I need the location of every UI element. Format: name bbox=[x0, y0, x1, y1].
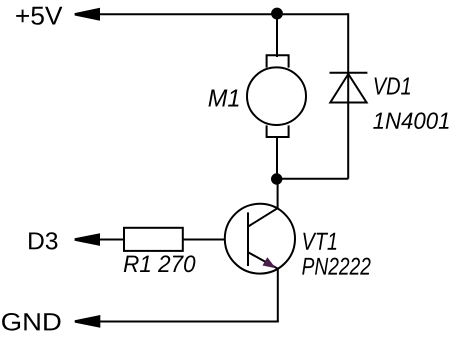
label PN2222 bbox=[302, 258, 370, 275]
motor M1 top terminal bbox=[267, 55, 289, 67]
wire resistor to base bbox=[183, 239, 248, 241]
transistor VT1 body bbox=[225, 204, 295, 274]
arrow GND bbox=[75, 315, 101, 328]
transistor VT1 emitter arrow bbox=[263, 257, 276, 268]
motor M1 bottom terminal bbox=[267, 125, 289, 137]
node +5V label bbox=[16, 7, 62, 25]
transistor VT1 collector stroke bbox=[248, 208, 278, 226]
arrow D3 input bbox=[75, 233, 100, 246]
wire emitter to GND rail bbox=[277, 269, 279, 322]
label VD1 bbox=[375, 78, 411, 95]
diode VD1 triangle bbox=[330, 74, 366, 103]
transistor VT1 base bar bbox=[247, 212, 249, 266]
label M1 bbox=[209, 90, 239, 107]
arrow +5V input bbox=[75, 8, 100, 21]
wire collector to node B bbox=[277, 179, 279, 209]
junction node B dot bbox=[271, 173, 282, 184]
wire GND rail bbox=[100, 321, 279, 323]
transistor VT1 emitter stroke bbox=[248, 252, 278, 268]
label 1N4001 bbox=[373, 112, 448, 129]
wire +5V rail bbox=[99, 13, 348, 15]
node D3 label bbox=[29, 232, 57, 249]
motor M1 body bbox=[247, 67, 306, 125]
wire node A to motor top bbox=[276, 14, 278, 57]
label VT1 bbox=[303, 233, 336, 250]
wire node B to diode branch bbox=[277, 178, 348, 180]
resistor R1 body bbox=[124, 228, 183, 251]
node GND label bbox=[2, 313, 60, 331]
label R1 270 bbox=[124, 255, 196, 272]
wire diode branch vertical bbox=[347, 13, 349, 179]
wire motor bottom to node B bbox=[276, 138, 278, 179]
diode VD1 cathode bar bbox=[330, 72, 368, 74]
junction node A dot bbox=[271, 8, 283, 20]
wire D3 to resistor bbox=[99, 239, 124, 241]
